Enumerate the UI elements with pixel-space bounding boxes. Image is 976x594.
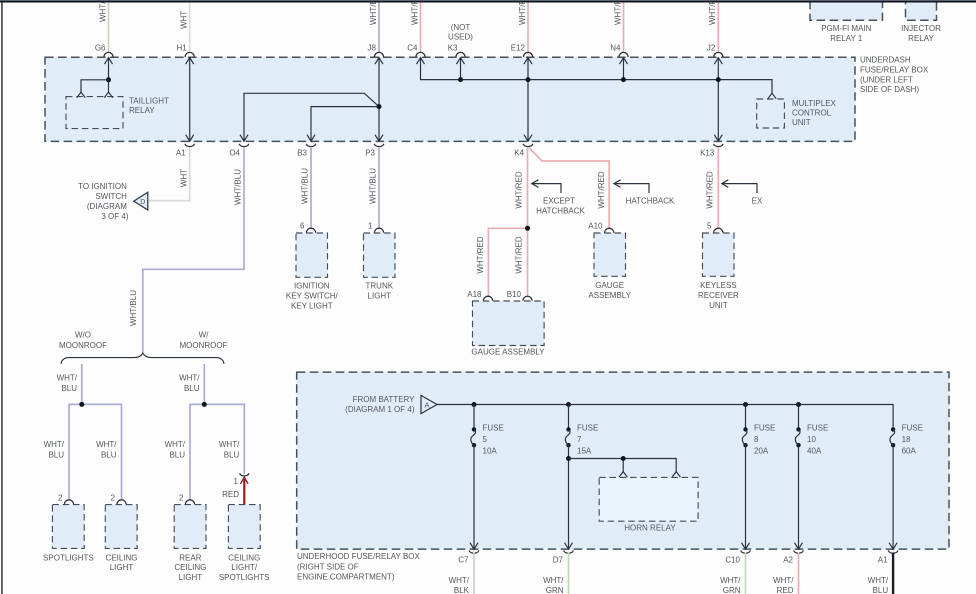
trunk light: [374, 228, 383, 233]
svg-text:IGNITION: IGNITION: [294, 282, 330, 291]
svg-text:UNIT: UNIT: [709, 301, 728, 310]
wire WHT/GRN into G6: [108, 0, 110, 52]
svg-text:LIGHT: LIGHT: [179, 573, 203, 582]
junction dot K3: [458, 77, 463, 82]
svg-text:TAILLIGHT: TAILLIGHT: [129, 96, 169, 105]
fuse 5 10A: [472, 402, 477, 407]
svg-text:A1: A1: [176, 149, 186, 158]
connector J2 at underdash box top: [714, 52, 723, 57]
svg-text:MULTIPLEX: MULTIPLEX: [792, 99, 837, 108]
screenshot left border: [1, 1, 2, 594]
wire to ceiling light: [82, 404, 122, 500]
K3 connector (not used): [456, 52, 465, 57]
svg-text:H1: H1: [176, 44, 187, 53]
svg-text:20A: 20A: [754, 447, 769, 456]
svg-text:5: 5: [707, 221, 712, 230]
fuse 10 40A: [796, 402, 801, 407]
svg-text:CEILING: CEILING: [174, 563, 206, 572]
svg-text:FROM BATTERY: FROM BATTERY: [353, 395, 416, 404]
svg-text:HATCHBACK: HATCHBACK: [536, 206, 585, 215]
svg-text:SIDE OF DASH): SIDE OF DASH): [860, 85, 919, 94]
wire WHT/BLU B3 to ignition key switch: [310, 148, 312, 229]
connector K4 at underdash box bottom: [523, 144, 533, 147]
svg-text:BLK: BLK: [454, 586, 470, 594]
fuse 18 60A: [891, 427, 895, 431]
svg-text:MOONROOF: MOONROOF: [180, 341, 228, 350]
svg-text:BLU: BLU: [48, 450, 64, 459]
wire to rear ceiling light: [190, 404, 204, 500]
svg-text:A18: A18: [467, 290, 482, 299]
wire to horn relay: [569, 459, 677, 472]
svg-text:RELAY 1: RELAY 1: [830, 34, 863, 43]
svg-text:GAUGE: GAUGE: [595, 281, 624, 290]
svg-text:18: 18: [902, 435, 911, 444]
svg-text:2: 2: [111, 494, 116, 503]
svg-text:WHT/: WHT/: [449, 576, 470, 585]
svg-text:(DIAGRAM 1 OF 4): (DIAGRAM 1 OF 4): [345, 405, 415, 414]
wire branch to taillight relay pin: [81, 80, 109, 93]
junction dot K4 branch: [525, 226, 530, 231]
svg-text:WHT/RED: WHT/RED: [708, 0, 717, 25]
svg-text:UNDERDASH: UNDERDASH: [860, 56, 911, 65]
wire WHT/RED into J2: [717, 0, 719, 52]
svg-text:E12: E12: [511, 44, 526, 53]
connector O4 at underdash box bottom: [239, 144, 249, 147]
PGM-FI main relay 1 box: [810, 0, 883, 20]
svg-text:8: 8: [754, 435, 759, 444]
wire w/o moonroof branch: [81, 364, 83, 404]
taillight relay: [66, 97, 123, 129]
wire C4 bus to multiplex control unit: [421, 58, 773, 94]
svg-text:J2: J2: [707, 44, 716, 53]
svg-text:SPOTLIGHTS: SPOTLIGHTS: [43, 553, 94, 562]
wire RED to ceiling light/spotlights: [243, 477, 245, 504]
wire J2 to K13: [717, 58, 719, 142]
junction dot w/ moonroof: [202, 402, 207, 407]
svg-text:KEY LIGHT: KEY LIGHT: [291, 301, 333, 310]
svg-text:C10: C10: [725, 556, 740, 565]
svg-text:A10: A10: [588, 221, 603, 230]
svg-text:WHT/RED: WHT/RED: [518, 0, 527, 25]
svg-text:GRN: GRN: [723, 586, 741, 594]
svg-text:WHT/BLU: WHT/BLU: [129, 290, 138, 326]
svg-text:2: 2: [58, 494, 63, 503]
connector D7 at underhood box bottom: [564, 550, 574, 553]
svg-text:BLU: BLU: [61, 384, 77, 393]
junction dot w/o moonroof: [79, 402, 84, 407]
svg-text:W/O: W/O: [75, 331, 91, 340]
junction dot N4: [621, 77, 626, 82]
connector E12 at underdash box top: [523, 52, 532, 57]
except hatchback tag: [532, 180, 539, 188]
svg-text:WHT/: WHT/: [868, 576, 889, 585]
in-line connector pin 1: [240, 473, 249, 476]
svg-text:15A: 15A: [577, 447, 592, 456]
junction dot E12: [526, 77, 531, 82]
svg-text:TO IGNITION: TO IGNITION: [78, 182, 127, 191]
svg-text:G6: G6: [95, 44, 106, 53]
wire E12 to K4: [527, 58, 529, 142]
svg-text:2: 2: [179, 494, 184, 503]
svg-text:WHT/BLU: WHT/BLU: [369, 0, 378, 25]
wire fuse to D7: [568, 445, 570, 549]
svg-text:K13: K13: [700, 149, 715, 158]
svg-text:USED): USED): [448, 33, 473, 42]
connector J8 at underdash box top: [374, 52, 383, 57]
svg-text:3 OF 4): 3 OF 4): [101, 212, 128, 221]
connector C4 at underdash box top: [416, 52, 425, 57]
svg-text:(RIGHT SIDE OF: (RIGHT SIDE OF: [297, 563, 359, 572]
wire WHT/RED K4 diagonal to A10: [529, 148, 609, 229]
svg-text:C7: C7: [458, 556, 469, 565]
svg-text:RELAY: RELAY: [129, 106, 155, 115]
wire WHT/RED into C4: [420, 0, 422, 52]
junction dot at J8/P3 wire: [377, 104, 382, 109]
wire to ceiling light/spotlights connector: [204, 404, 244, 474]
svg-text:HATCHBACK: HATCHBACK: [626, 196, 675, 205]
wire WHT/RED K13 to keyless receiver: [717, 148, 719, 229]
svg-text:FUSE: FUSE: [483, 424, 504, 433]
svg-text:WHT/: WHT/: [165, 440, 186, 449]
svg-text:LIGHT: LIGHT: [110, 563, 134, 572]
svg-text:FUSE/RELAY BOX: FUSE/RELAY BOX: [860, 65, 929, 74]
svg-text:5: 5: [483, 435, 488, 444]
svg-text:WHT/BLU: WHT/BLU: [369, 168, 378, 204]
svg-text:WHT/RED: WHT/RED: [410, 0, 419, 25]
svg-text:HORN RELAY: HORN RELAY: [624, 524, 676, 533]
svg-text:RECEIVER: RECEIVER: [698, 291, 739, 300]
connector C7 at underhood box bottom: [469, 550, 479, 553]
svg-text:O4: O4: [229, 149, 240, 158]
svg-text:A: A: [424, 401, 429, 410]
svg-text:FUSE: FUSE: [754, 424, 775, 433]
svg-text:LIGHT: LIGHT: [368, 292, 392, 301]
svg-text:WHT/: WHT/: [720, 576, 741, 585]
wire O4 branch: [244, 93, 379, 141]
svg-text:EXCEPT: EXCEPT: [543, 196, 575, 205]
svg-text:WHT/RED: WHT/RED: [597, 171, 606, 209]
svg-text:WHT/: WHT/: [543, 576, 564, 585]
svg-text:6: 6: [300, 221, 305, 230]
svg-text:UNIT: UNIT: [792, 118, 811, 127]
keyless receiver unit: [714, 228, 723, 233]
connector N4 at underdash box top: [619, 52, 628, 57]
underdash fuse/relay box: [45, 57, 855, 141]
svg-text:CEILING: CEILING: [228, 553, 260, 562]
battery bus wire: [437, 405, 893, 428]
svg-text:BLU: BLU: [184, 384, 200, 393]
hatchback tag: [614, 180, 621, 188]
svg-text:WHT/GRN: WHT/GRN: [98, 0, 107, 22]
svg-text:WHT/: WHT/: [96, 440, 117, 449]
junction dot fuse 7 branch: [566, 456, 571, 461]
svg-text:WHT/: WHT/: [179, 374, 200, 383]
svg-text:GRN: GRN: [546, 586, 564, 594]
svg-text:SWITCH: SWITCH: [95, 192, 127, 201]
horn relay: [619, 472, 627, 478]
multiplex control unit: [757, 99, 785, 128]
svg-text:D7: D7: [553, 556, 564, 565]
svg-text:7: 7: [577, 435, 582, 444]
svg-text:FUSE: FUSE: [807, 424, 828, 433]
underhood fuse/relay box: [297, 372, 949, 549]
wire WHT into H1: [189, 0, 191, 52]
svg-text:40A: 40A: [807, 447, 822, 456]
svg-text:D: D: [140, 199, 145, 206]
svg-text:(DIAGRAM: (DIAGRAM: [87, 202, 127, 211]
wire fuse to C10: [745, 445, 747, 549]
svg-text:RELAY: RELAY: [908, 34, 934, 43]
svg-text:WHT/RED: WHT/RED: [705, 171, 714, 209]
connector A1 at underhood box bottom: [888, 550, 898, 553]
svg-text:INJECTOR: INJECTOR: [901, 24, 941, 33]
svg-text:UNDERHOOD FUSE/RELAY BOX: UNDERHOOD FUSE/RELAY BOX: [297, 552, 421, 561]
wire fuse to C7: [473, 445, 475, 549]
svg-text:BLU: BLU: [101, 450, 117, 459]
svg-text:K3: K3: [448, 44, 458, 53]
ignition key switch/key light: [306, 228, 315, 233]
svg-text:WHT/RED: WHT/RED: [515, 171, 524, 209]
svg-text:P3: P3: [365, 149, 375, 158]
svg-text:1: 1: [234, 477, 239, 486]
off-page triangle A from battery: [421, 395, 437, 413]
svg-text:EX: EX: [752, 196, 763, 205]
svg-text:BLU: BLU: [224, 450, 240, 459]
svg-text:SPOTLIGHTS: SPOTLIGHTS: [219, 573, 270, 582]
svg-text:B3: B3: [297, 149, 307, 158]
wire fuse to A2: [798, 445, 800, 549]
connector B3 at underdash box bottom: [306, 144, 316, 147]
svg-text:WHT/: WHT/: [57, 374, 78, 383]
wire H1 to A1: [189, 58, 191, 142]
svg-text:10: 10: [807, 435, 816, 444]
svg-text:60A: 60A: [902, 447, 917, 456]
svg-text:(UNDER LEFT: (UNDER LEFT: [860, 75, 913, 84]
off-page triangle D to ignition switch: [134, 192, 148, 210]
connector box ceiling light: [105, 505, 137, 549]
wire w/ moonroof branch: [203, 364, 205, 404]
injector relay box: [906, 0, 937, 20]
svg-text:BLU: BLU: [873, 586, 889, 594]
svg-text:PGM-FI MAIN: PGM-FI MAIN: [821, 24, 871, 33]
ex tag: [722, 180, 729, 188]
wire K3 stub: [460, 58, 462, 80]
svg-text:(NOT: (NOT: [451, 23, 471, 32]
wire B3 branch: [311, 107, 379, 142]
connector C10 at underhood box bottom: [741, 550, 751, 553]
wire WHT from A1 to ignition switch: [148, 148, 190, 201]
svg-text:FUSE: FUSE: [902, 424, 923, 433]
svg-text:KEYLESS: KEYLESS: [700, 281, 736, 290]
svg-text:WHT: WHT: [180, 11, 189, 29]
svg-text:WHT/BLU: WHT/BLU: [234, 169, 243, 205]
svg-text:WHT: WHT: [179, 169, 188, 187]
gauge assembly (except hatchback): [483, 296, 492, 301]
wire N4 stub: [623, 58, 625, 80]
svg-text:A2: A2: [783, 556, 793, 565]
wire WHT/RED branch to A18: [488, 228, 527, 297]
svg-text:J8: J8: [368, 44, 377, 53]
svg-text:ASSEMBLY: ASSEMBLY: [588, 291, 631, 300]
wire WHT/BLU into J8: [378, 0, 380, 52]
svg-text:A1: A1: [878, 556, 888, 565]
fuse 8 20A: [743, 402, 748, 407]
connector K13 at underdash box bottom: [714, 144, 724, 147]
wire WHT/BLU P3 to trunk light: [378, 148, 380, 229]
wire J8 to P3: [378, 58, 380, 142]
wire fuse to A1: [892, 445, 894, 549]
svg-text:WHT/: WHT/: [773, 576, 794, 585]
svg-text:B10: B10: [507, 290, 522, 299]
wire WHT/BLU from O4: [143, 148, 244, 353]
connector box rear ceiling light: [174, 505, 206, 549]
svg-text:1: 1: [368, 221, 373, 230]
svg-text:WHT/RED: WHT/RED: [515, 236, 524, 274]
connector P3 at underdash box bottom: [374, 144, 384, 147]
svg-text:REAR: REAR: [179, 553, 201, 562]
fuse 7 15A: [566, 402, 571, 407]
svg-text:MOONROOF: MOONROOF: [59, 341, 107, 350]
svg-text:N4: N4: [610, 44, 621, 53]
svg-text:FUSE: FUSE: [577, 424, 598, 433]
svg-text:RED: RED: [777, 586, 794, 594]
wire G6 to taillight relay: [108, 58, 110, 93]
svg-text:BLU: BLU: [169, 450, 185, 459]
svg-text:WHT/RED: WHT/RED: [476, 236, 485, 274]
svg-text:K4: K4: [514, 149, 524, 158]
connector box spotlights: [52, 505, 84, 549]
connector box ceiling light/spotlights: [228, 505, 260, 549]
junction dot horn relay branch: [621, 456, 626, 461]
svg-text:KEY SWITCH/: KEY SWITCH/: [286, 292, 339, 301]
svg-text:WHT/BLU: WHT/BLU: [301, 168, 310, 204]
connector A2 at underhood box bottom: [794, 550, 804, 553]
wire WHT/RED into E12: [527, 0, 529, 52]
svg-text:WHT/: WHT/: [44, 440, 65, 449]
svg-text:WHT/: WHT/: [219, 440, 240, 449]
svg-text:ENGINE COMPARTMENT): ENGINE COMPARTMENT): [297, 573, 395, 582]
svg-text:TRUNK: TRUNK: [366, 282, 394, 291]
svg-text:W/: W/: [199, 331, 210, 340]
svg-text:10A: 10A: [483, 447, 498, 456]
svg-text:GAUGE ASSEMBLY: GAUGE ASSEMBLY: [471, 348, 545, 357]
wire to spotlights: [69, 404, 82, 500]
gauge assembly (hatchback): [605, 228, 614, 233]
screenshot top border: [0, 0, 976, 1]
svg-text:LIGHT/: LIGHT/: [231, 563, 258, 572]
moonroof option brace: [61, 353, 224, 364]
wire WHT/RED K4 down to B10: [527, 148, 529, 297]
junction dot J2: [716, 77, 721, 82]
svg-text:RED: RED: [222, 490, 239, 499]
svg-text:CONTROL: CONTROL: [792, 109, 832, 118]
connector H1 at underdash box top: [185, 52, 194, 57]
svg-text:WHT/RED: WHT/RED: [613, 0, 622, 25]
svg-text:CEILING: CEILING: [105, 553, 137, 562]
svg-text:C4: C4: [407, 44, 418, 53]
connector G6 at underdash box top: [104, 52, 113, 57]
wire WHT/RED into N4: [623, 0, 625, 52]
connector A1 at underdash box bottom: [185, 144, 195, 147]
junction dot G6 branch: [106, 77, 111, 82]
